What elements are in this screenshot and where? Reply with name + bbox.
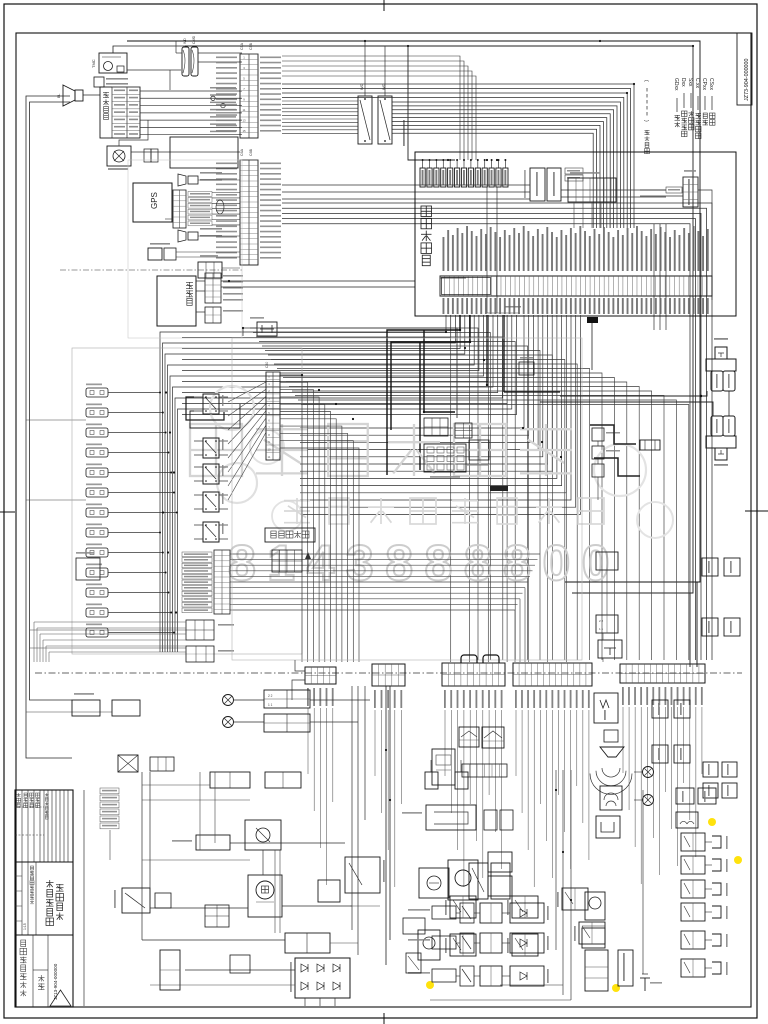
relay K5 mid-left xyxy=(203,522,219,542)
horn button top xyxy=(715,347,727,359)
small vertical component bottom-left xyxy=(160,950,180,990)
relay K1 wiring loop xyxy=(186,397,224,420)
highlight dot 1 xyxy=(708,818,716,826)
U bracket twin arc box xyxy=(676,812,698,828)
boxed labels GPS strip xyxy=(188,192,212,197)
sensor connector row xyxy=(420,168,425,187)
svg-text:GDxx: GDxx xyxy=(673,78,679,91)
far-left bus wire 2 xyxy=(30,102,73,700)
svg-text:2 2: 2 2 xyxy=(599,619,604,623)
svg-text:WD: WD xyxy=(360,83,364,90)
svg-text:C.xx: C.xx xyxy=(694,78,700,89)
cigarette lighter S12 xyxy=(107,146,131,166)
switch row 2 lamp box xyxy=(510,933,544,953)
top power bus wire lower xyxy=(185,46,693,593)
diagnostic connector xyxy=(568,178,616,202)
relay TMC xyxy=(99,53,127,73)
wiper motor circle xyxy=(448,860,478,900)
plug circles on wires xyxy=(211,96,215,100)
wires lamps to relays xyxy=(233,699,264,701)
switch row 1 wires xyxy=(456,912,460,914)
controller enclosure box xyxy=(415,152,736,316)
wires strip A to sensor bus xyxy=(282,56,460,160)
long wires battery bus right xyxy=(221,280,415,282)
svg-text:JZ73-904-000000: JZ73-904-000000 xyxy=(744,58,750,101)
relay with switch bottom-left xyxy=(345,857,380,893)
chain line cab boundary xyxy=(60,269,243,271)
indicator lamp L2 xyxy=(643,795,654,806)
title block triangle xyxy=(50,990,71,1006)
relay KR1 xyxy=(562,888,588,910)
label box C201 xyxy=(666,187,682,193)
manual override box xyxy=(76,558,100,580)
drawing number box JZ73-904-000000 xyxy=(737,33,752,105)
svg-text:2 2: 2 2 xyxy=(268,694,273,698)
relay K1 mid-left xyxy=(203,394,219,414)
wires WD to top bus xyxy=(364,41,366,96)
relay KR2 xyxy=(579,922,605,944)
display connector grid 1 xyxy=(424,418,448,436)
crop tick right center xyxy=(745,510,768,512)
watermark row 2 xyxy=(284,500,310,502)
crop tick top center xyxy=(383,0,385,11)
connector E pin ladder xyxy=(214,550,230,614)
step trace 2 xyxy=(594,458,640,476)
relay pair bottom-left A xyxy=(264,690,310,708)
svg-text:1 1: 1 1 xyxy=(268,703,273,707)
wires strip D right into center bus xyxy=(280,375,302,662)
connector strip D pin ladder xyxy=(266,372,280,460)
step trace 1 xyxy=(590,425,636,444)
svg-text:GPS: GPS xyxy=(150,192,159,209)
mid connector pair M2 xyxy=(652,745,668,763)
arrow symbol xyxy=(307,556,309,572)
aux box bottom-left xyxy=(230,955,250,973)
remote speaker amplifier box xyxy=(594,693,618,723)
relay column row 6 xyxy=(681,959,705,977)
switch row 2 relay xyxy=(480,933,502,953)
svg-text:CWD: CWD xyxy=(192,35,196,44)
inline connector symbol xyxy=(640,440,660,450)
right connector pair R1 xyxy=(702,558,718,576)
blank unit box above GPS xyxy=(170,137,238,168)
horn junction wires xyxy=(560,391,707,396)
switch row 3 label box xyxy=(432,969,456,982)
switch row 3 wires xyxy=(456,975,460,977)
wire mini connector xyxy=(222,267,240,269)
drain valve hatched xyxy=(118,755,138,772)
crop tick bottom center xyxy=(383,1013,385,1024)
relay KR4 xyxy=(512,934,538,956)
mating plug hats on S3 xyxy=(461,655,477,663)
relay KR5 xyxy=(450,896,476,918)
relay pair bottom mid xyxy=(488,852,512,872)
wires battery to pins xyxy=(196,280,205,282)
antenna connector xyxy=(148,248,162,260)
top small connector row 1 xyxy=(210,772,250,788)
fuse F1 10A xyxy=(257,322,277,336)
fanout connector A under S3 xyxy=(459,727,479,747)
switch row 3 contact xyxy=(460,966,474,986)
bottom connector strip S5 xyxy=(620,664,705,683)
indicator lamp L1 xyxy=(643,767,654,778)
svg-text:Sxx: Sxx xyxy=(687,78,693,87)
radiator box xyxy=(426,805,476,830)
center controller label xyxy=(421,206,432,217)
second bus corners to bottom strips xyxy=(282,203,712,660)
speaker sound waves xyxy=(602,768,620,777)
switch row 1 lamp box xyxy=(510,903,544,923)
svg-text:WD: WD xyxy=(183,38,187,44)
wire speaker to horn connector xyxy=(83,94,100,96)
relay column row 3 xyxy=(681,880,705,898)
svg-text:CPxx: CPxx xyxy=(701,78,707,90)
antenna symbol bottom xyxy=(644,978,646,991)
washer stack xyxy=(585,950,608,991)
svg-text:WD: WD xyxy=(382,83,386,90)
elbow wires left of S1 xyxy=(295,660,305,671)
diode bridge block xyxy=(295,958,350,998)
label rows near title block xyxy=(100,788,119,794)
relay K3 mid-left xyxy=(203,464,219,484)
display connector grid 2 xyxy=(455,423,472,438)
relay pair bottom center xyxy=(469,863,488,899)
relay KR3 xyxy=(512,896,538,918)
wires relay stack xyxy=(606,570,608,615)
right top pair RT1 xyxy=(703,762,718,777)
fuse column xyxy=(86,388,108,397)
svg-text:Dxx: Dxx xyxy=(680,78,686,87)
bridge input wire xyxy=(185,969,295,971)
switch row 1 label box xyxy=(432,906,456,919)
horn connector pair lower xyxy=(711,416,723,436)
wire fuse right long xyxy=(277,328,457,418)
title block drawing name xyxy=(49,880,51,888)
GPS unit xyxy=(133,183,172,222)
pump box 2 xyxy=(112,700,140,716)
inline plug upper xyxy=(178,174,186,186)
switch row 3 relay xyxy=(480,966,502,986)
main harness bus nested corners upper xyxy=(282,84,634,228)
dark bar symbol xyxy=(490,486,508,491)
small box pair left of rows xyxy=(403,918,425,934)
right top pair RT2 xyxy=(703,783,718,798)
title block top grid xyxy=(21,790,23,862)
crop tick left center xyxy=(0,511,15,513)
buzzer relay xyxy=(122,888,150,913)
buzzer side box xyxy=(155,893,171,908)
title block bottom xyxy=(32,935,34,1007)
bottom connector strip S3 xyxy=(442,663,505,686)
bus drop at x408 to sensor row xyxy=(408,46,455,160)
wires strip C5 to WD xyxy=(282,100,358,102)
far-left bus wire 1 xyxy=(26,96,72,758)
switch row 3 lamp box xyxy=(510,966,544,986)
sensor circle box xyxy=(419,868,449,898)
wires voltage converter right xyxy=(561,189,666,191)
relay column row 2 xyxy=(681,856,705,874)
small fuses pair top xyxy=(425,772,438,789)
voltage converter connector xyxy=(530,168,545,201)
horn connector pair upper xyxy=(711,371,723,391)
bottom feeder verticals right xyxy=(555,770,557,950)
watermark seal rings xyxy=(210,386,254,430)
relay column row 5 xyxy=(681,931,705,949)
wires strip B to voltage converter xyxy=(282,184,530,186)
main harness bus nested corners lower xyxy=(392,102,620,228)
wires under strip S1 xyxy=(307,708,309,774)
box below speaker arcs xyxy=(600,786,622,810)
relay K2 mid-left xyxy=(203,438,219,458)
title block middle xyxy=(21,862,23,935)
controller connector strip xyxy=(440,276,712,296)
controller wires group A to left bus xyxy=(160,315,446,652)
wire lighter to strip xyxy=(131,151,240,153)
wires under strip S4 xyxy=(515,710,517,776)
top small connector row 2 xyxy=(265,772,301,788)
CAN bus elbow 3 xyxy=(424,330,455,412)
small component upper right-center xyxy=(519,362,534,375)
work lamp 2 xyxy=(223,717,234,728)
dark feeder verticals center-bottom xyxy=(385,686,387,965)
wires under strip S5 xyxy=(622,707,624,773)
relay K4 mid-left xyxy=(203,492,219,512)
CAN thick verticals xyxy=(486,315,488,385)
wide relay box lower-left xyxy=(196,835,230,850)
wires horn block to strip C5 xyxy=(140,90,242,92)
hour meter box xyxy=(432,749,455,785)
svg-text:C5B: C5B xyxy=(249,42,253,50)
connector pair above relay column xyxy=(676,788,694,804)
svg-text:C30: C30 xyxy=(265,362,269,368)
connector horn block xyxy=(100,87,140,138)
left harness dashed enclosure xyxy=(72,348,302,654)
wire TMC to bus xyxy=(127,40,145,42)
left links bottom xyxy=(142,784,210,786)
right connector pair R2 xyxy=(702,618,718,636)
controller wires group B to center cluster xyxy=(300,315,524,428)
washer relay xyxy=(582,928,605,948)
highlight dot 3 xyxy=(426,981,434,989)
CAN bus elbow 2 xyxy=(391,315,470,430)
terminator cap xyxy=(587,317,598,323)
relay WD pair xyxy=(358,96,372,144)
meter bar box under S3 xyxy=(462,764,507,777)
wire title strip down xyxy=(109,830,111,860)
connector chain right-center xyxy=(592,428,604,441)
wires GPS strip to strip C6 xyxy=(212,192,240,194)
svg-text:11: 11 xyxy=(268,455,271,459)
right long verticals xyxy=(665,224,667,330)
highlight dot 2 xyxy=(734,856,742,864)
battery pin block lower xyxy=(205,307,221,323)
speaker small box xyxy=(604,730,618,742)
bottom connector strip S1 xyxy=(305,667,336,684)
relay pair bottom-left B xyxy=(264,714,310,732)
motor M xyxy=(248,875,282,917)
relay column row 4 xyxy=(681,903,705,921)
watermark row 1 xyxy=(190,424,242,476)
horn driver box xyxy=(598,640,622,658)
svg-text:C5A: C5A xyxy=(240,42,244,50)
switch row 2 contact xyxy=(460,933,474,953)
switch row 1 relay xyxy=(480,903,502,923)
box below speaker bracket xyxy=(596,816,620,838)
motor M2 xyxy=(585,892,605,920)
sensor row drop wires xyxy=(486,187,488,313)
svg-text:TMC: TMC xyxy=(91,59,96,68)
CAN bus elbow 1 xyxy=(387,315,460,475)
svg-text:10: 10 xyxy=(267,448,271,452)
remote speaker cone xyxy=(600,747,624,757)
title block outer xyxy=(15,790,73,1007)
cluster light enclosure xyxy=(232,338,582,660)
connector C201 right xyxy=(683,177,698,207)
chain line datum xyxy=(35,672,742,674)
wires C201 xyxy=(640,189,666,191)
junction dots center xyxy=(459,329,461,331)
radiator pair xyxy=(484,810,497,830)
bottom horizontal links right xyxy=(500,984,563,986)
flasher box xyxy=(245,820,281,850)
safety relay box xyxy=(265,528,315,542)
left bus taps xyxy=(26,419,86,421)
bridge output wires xyxy=(304,998,306,1006)
wires E right fan xyxy=(230,553,540,555)
svg-text:1:15: 1:15 xyxy=(23,923,27,930)
junction dots on buses xyxy=(165,391,167,393)
wires relays to ladder diagonal xyxy=(228,382,266,402)
relay pair stack lower xyxy=(596,615,618,633)
relay bottom 1 xyxy=(285,933,330,953)
wires under strip S3 xyxy=(444,710,446,776)
connector E labels xyxy=(182,552,212,557)
svg-text:13: 13 xyxy=(242,118,246,122)
bottom connector strip S2 xyxy=(372,664,405,686)
switch row 1 contact xyxy=(460,903,474,923)
bottom-left mesh verticals xyxy=(199,772,201,850)
bottom connector strip S4 xyxy=(513,663,592,686)
relay pair stack upper xyxy=(596,552,618,570)
pump box 1 xyxy=(72,700,100,716)
bottom-left mesh horizontals xyxy=(142,859,250,861)
svg-text:15: 15 xyxy=(242,129,246,133)
flasher to motor wire xyxy=(262,850,264,875)
oval connector on wire xyxy=(216,200,224,214)
work lamp 1 xyxy=(223,695,234,706)
drain valve connector xyxy=(150,757,174,771)
keypad block xyxy=(424,444,466,472)
switch row 2 label box xyxy=(432,936,456,949)
relay WD pair 1 xyxy=(182,47,189,76)
wire antenna to strip xyxy=(176,251,240,253)
washer pump xyxy=(418,930,440,960)
cross harness horizontals to staircase xyxy=(250,328,478,660)
title block top texts xyxy=(18,793,20,797)
relay KR6 xyxy=(450,934,476,956)
svg-text:C6B: C6B xyxy=(249,148,253,156)
mini grid blocks below E xyxy=(186,620,214,640)
washer connector vertical xyxy=(618,950,633,986)
wire diag down xyxy=(573,202,575,228)
controller pin labels top xyxy=(443,237,445,271)
inline plug lower xyxy=(178,230,186,242)
top power bus wire upper xyxy=(145,41,700,582)
switch row 2 wires xyxy=(456,942,460,944)
GPS connector strip xyxy=(173,190,186,228)
controller pin labels bottom xyxy=(443,298,445,314)
svg-text:1 1: 1 1 xyxy=(599,627,604,631)
lighter connector pair xyxy=(144,149,151,162)
speaker BL xyxy=(75,90,83,101)
connector 2x2 bottom-left xyxy=(205,905,229,927)
horn button bottom xyxy=(706,436,713,448)
long vertical feeders bottom-left xyxy=(141,772,143,940)
highlight dot 4 xyxy=(612,984,620,992)
mid connector pair M1 xyxy=(652,700,668,718)
relay column row 1 xyxy=(681,833,705,851)
relay small center xyxy=(469,440,489,460)
wires WD1 xyxy=(175,41,177,53)
fuse wires to bus xyxy=(108,392,160,394)
small module BL15A xyxy=(94,77,104,87)
safety relay pins xyxy=(272,550,302,572)
svg-text:CSxx: CSxx xyxy=(708,78,714,90)
svg-text:C6A: C6A xyxy=(240,148,244,156)
svg-text:11: 11 xyxy=(243,108,246,112)
wires under strip S2 xyxy=(374,710,376,776)
connector mini C7 xyxy=(198,262,222,278)
bottom-left horizontal links xyxy=(150,907,248,909)
wires lower-left bus xyxy=(34,621,186,623)
small box bottom-left B xyxy=(318,880,340,902)
battery pin block upper xyxy=(205,273,221,303)
fanout connector B under S3 xyxy=(482,727,504,748)
battery unit xyxy=(157,276,196,326)
